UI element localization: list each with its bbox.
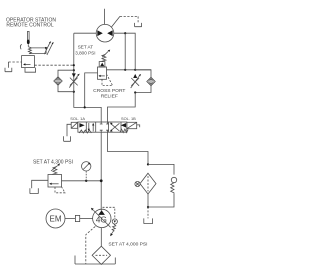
- svg-text:SET AT: SET AT: [78, 45, 94, 50]
- remote control drain loop: [25, 68, 36, 73]
- V1 closed center stubs: [100, 122, 109, 132]
- svg-text:SET AT 4,000 PSI: SET AT 4,000 PSI: [108, 242, 147, 248]
- cross port relief RV1 drain dashes: [102, 75, 113, 86]
- compensator arrow: [111, 231, 114, 235]
- wire: filter to diamond bottom: [147, 194, 149, 207]
- svg-text:SET AT 4,300 PSI: SET AT 4,300 PSI: [33, 159, 73, 165]
- flow control FC2: [133, 74, 137, 78]
- tank T1 (remote control drain): [5, 62, 12, 72]
- compensator valve: [112, 219, 117, 224]
- solenoid valve V1 envelope: [78, 122, 127, 132]
- cross port relief RV1 adjust arrow: [102, 51, 108, 57]
- relief RV2 flow arrow: [51, 183, 59, 185]
- svg-text:RELIEF: RELIEF: [101, 94, 118, 100]
- wire: pump suction: [100, 228, 102, 247]
- filter indicator: [135, 181, 140, 186]
- svg-text:4G: 4G: [96, 215, 107, 225]
- solenoid SOL 1A box: [71, 122, 77, 128]
- joystick lever: [27, 32, 29, 42]
- filter F1: [140, 173, 156, 194]
- wire: RV1 right port line: [107, 69, 152, 71]
- wire: motor B-port to B-trunk: [114, 33, 135, 70]
- wire: filter bypass top: [148, 164, 174, 174]
- wire: B-trunk to valve: [108, 93, 136, 123]
- relief RV2 adjust arrow: [51, 165, 58, 171]
- joystick pivot: [27, 40, 30, 45]
- flow control FC1: [72, 73, 76, 77]
- pressure gauge G1: [82, 162, 91, 171]
- coupling: [75, 215, 79, 221]
- wire: motor A-port to trunk: [74, 32, 96, 34]
- check valve CV1: [54, 77, 62, 85]
- tank T5: [30, 188, 38, 193]
- reservoir: [75, 256, 115, 265]
- wire: bypass loop A: [58, 70, 74, 92]
- relief RV2 body: [48, 175, 62, 188]
- remote control reducing valve body: [22, 56, 35, 68]
- remote control valve flow arrow: [25, 63, 31, 65]
- motor case drain wire: [111, 16, 120, 27]
- pilot line dashed (valve to A-trunk): [34, 64, 73, 66]
- V1 left spring: [79, 130, 91, 133]
- svg-text:3,800 PSI: 3,800 PSI: [75, 50, 95, 55]
- junction bypass top A: [73, 69, 75, 71]
- motor shaft: [104, 9, 106, 25]
- svg-text:SOL. 1B: SOL. 1B: [121, 116, 136, 121]
- relief RV2 spring: [52, 167, 57, 175]
- pilot line dashed (tank to valve): [8, 61, 21, 63]
- joystick rotation arc: [20, 44, 21, 49]
- wire: T line valve to filter: [108, 132, 149, 164]
- compensator spring: [112, 224, 116, 231]
- svg-text:REMOTE CONTROL: REMOTE CONTROL: [6, 23, 53, 29]
- check valve CV2: [147, 77, 155, 85]
- V1 right check section: [121, 123, 126, 127]
- electric motor EM: [46, 209, 65, 228]
- wire: to tank T4: [147, 207, 149, 218]
- wire: branch to RV1 right: [124, 33, 126, 70]
- cross port relief RV1 flow arrow: [100, 75, 105, 77]
- wire: A-line trunk: [74, 33, 101, 122]
- svg-text:EM: EM: [50, 215, 62, 224]
- bypass check CV3: [171, 177, 176, 182]
- svg-text:SOL. 1A: SOL. 1A: [70, 116, 85, 121]
- label: SET AT 3,800 PSI: [75, 45, 95, 56]
- label: OPERATOR STATION REMOTE CONTROL: [6, 17, 56, 28]
- wire: filter bypass bottom: [148, 194, 174, 207]
- svg-text:CROSS PORT: CROSS PORT: [93, 88, 125, 94]
- wire: RV1 left port down to A-line: [85, 73, 98, 108]
- motor shaft wire: [65, 218, 75, 220]
- label: CROSS PORT RELIEF: [93, 88, 125, 100]
- V1 parallel arrows section: [89, 123, 93, 131]
- wire: RV2 to tank T5: [32, 180, 48, 188]
- hydraulic motor M1: [96, 24, 114, 42]
- cross port relief RV1 body: [98, 67, 107, 79]
- pump case drain dashed: [86, 226, 96, 264]
- joystick feedback diagonals: [44, 43, 52, 55]
- solenoid SOL 1B box: [127, 122, 137, 128]
- pump variable arrow: [93, 210, 110, 227]
- suction strainer F2: [92, 246, 110, 264]
- pump compensator pilot dashed: [103, 207, 115, 219]
- pump P1: [93, 209, 111, 227]
- joystick linkage wires: [28, 44, 46, 53]
- wire: RV2 to P trunk: [62, 180, 102, 182]
- tank T3 (valve drain): [64, 124, 72, 141]
- cross port relief RV1 spring: [102, 54, 106, 61]
- tank T4: [144, 218, 153, 223]
- relief RV2 drain dashes: [55, 186, 65, 193]
- junction bypass bottom A: [73, 91, 75, 93]
- V1 crossed arrows section: [110, 123, 119, 131]
- cross port relief RV1 pilot box: [99, 62, 105, 67]
- wire: bypass loop B: [135, 70, 151, 93]
- V1 right spring: [120, 129, 128, 133]
- V1 left check section: [79, 123, 84, 127]
- junction pilot at A-trunk: [73, 64, 75, 66]
- tank T2 (motor case drain): [135, 23, 142, 27]
- wire: P trunk valve to pump: [100, 132, 102, 210]
- remote control valve spring: [28, 47, 31, 54]
